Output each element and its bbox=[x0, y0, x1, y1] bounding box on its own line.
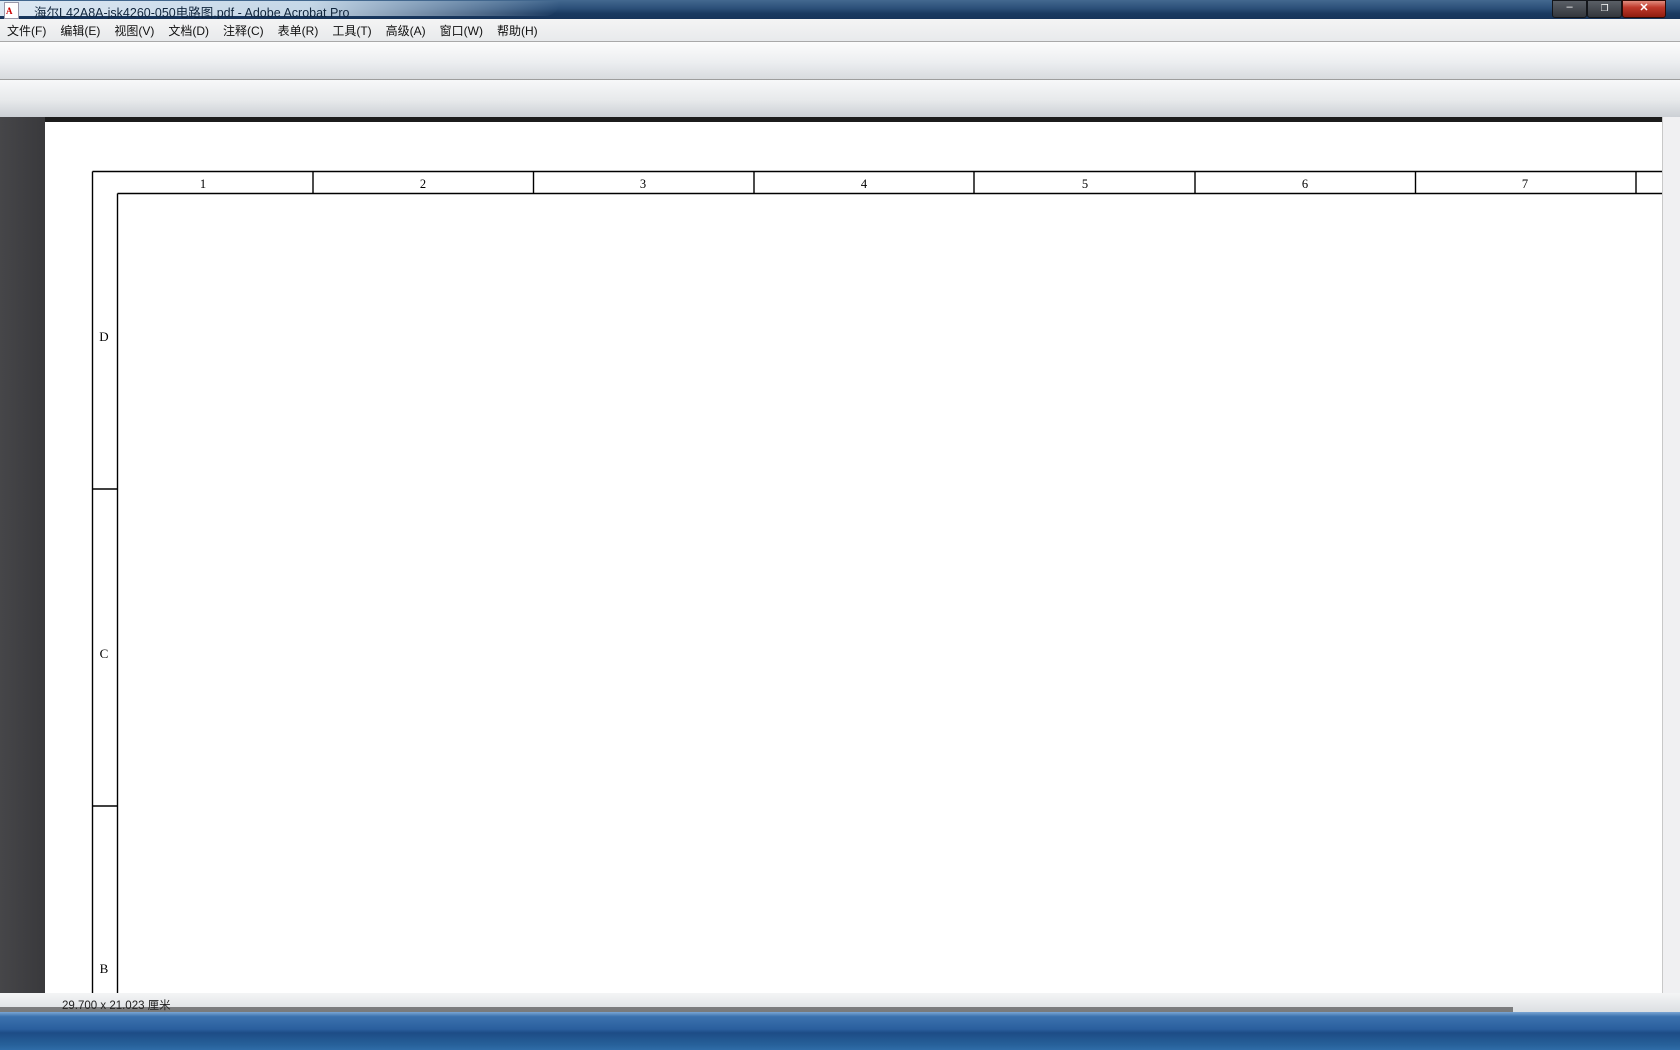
frame column dividers bbox=[313, 172, 1636, 194]
frame row letters bbox=[99, 329, 108, 976]
svg-text:D: D bbox=[99, 329, 108, 344]
page background bbox=[45, 122, 1662, 993]
svg-text:1: 1 bbox=[200, 177, 206, 191]
svg-text:2: 2 bbox=[420, 177, 426, 191]
svg-text:5: 5 bbox=[1082, 177, 1088, 191]
frame column numbers bbox=[200, 177, 1528, 191]
svg-text:3: 3 bbox=[640, 177, 646, 191]
frame row dividers bbox=[93, 489, 118, 806]
svg-text:B: B bbox=[100, 961, 109, 976]
border frame inner bbox=[118, 194, 1663, 994]
svg-text:C: C bbox=[100, 646, 109, 661]
svg-text:7: 7 bbox=[1522, 177, 1528, 191]
svg-text:6: 6 bbox=[1302, 177, 1308, 191]
svg-text:4: 4 bbox=[861, 177, 868, 191]
border frame outer bbox=[93, 172, 1663, 994]
